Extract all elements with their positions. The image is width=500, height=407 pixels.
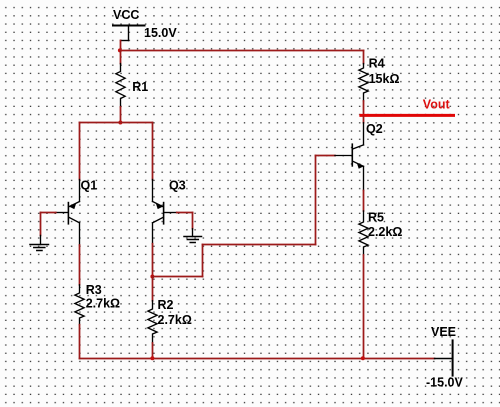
wire Q3 base — [177, 213, 193, 229]
wire R5 to bottom rail — [363, 255, 365, 359]
svg-text:VCC: VCC — [113, 8, 139, 22]
power VEE — [435, 340, 453, 375]
svg-text:2.7kΩ: 2.7kΩ — [86, 296, 120, 310]
power VCC — [113, 26, 145, 41]
svg-text:2.7kΩ: 2.7kΩ — [158, 313, 192, 327]
svg-text:R5: R5 — [368, 211, 384, 225]
svg-text:Vout: Vout — [423, 98, 451, 112]
resistor R2 — [148, 301, 157, 343]
wire R2 to bottom rail — [152, 343, 154, 359]
node A junction — [118, 121, 122, 125]
transistor Q3 — [153, 180, 177, 244]
resistor R3 — [75, 285, 84, 325]
svg-text:Q3: Q3 — [169, 179, 186, 193]
svg-text:VEE: VEE — [431, 325, 456, 339]
wire node A horizontal — [80, 122, 153, 124]
wire Q2 emitter to R5 — [363, 191, 365, 211]
svg-text:Q1: Q1 — [81, 179, 98, 193]
wire Q1 base — [41, 213, 56, 236]
svg-text:15.0V: 15.0V — [144, 26, 177, 40]
ground G1 — [30, 235, 49, 250]
wire node A to Q1 emitter — [79, 123, 81, 180]
wire top rail — [121, 50, 364, 52]
wire VCC to top rail — [120, 41, 122, 51]
net Vout wire (thick) — [361, 114, 454, 117]
wire top rail to R1 — [120, 51, 122, 64]
wire R1 to node A — [120, 107, 122, 123]
node B junction — [150, 275, 154, 279]
wire node A to Q3 emitter — [152, 123, 154, 180]
resistor R4 — [359, 64, 368, 102]
node top junction — [118, 48, 122, 52]
resistor R1 — [116, 64, 125, 108]
wire top rail to R4 — [363, 51, 365, 64]
svg-text:R3: R3 — [86, 283, 102, 297]
transistor Q1 — [56, 180, 80, 246]
svg-text:R1: R1 — [132, 80, 148, 94]
wire Q1 collector to R3 — [79, 245, 81, 285]
wire R3 to bottom rail — [79, 325, 81, 359]
svg-text:2.2kΩ: 2.2kΩ — [368, 225, 402, 239]
svg-text:15kΩ: 15kΩ — [369, 72, 400, 86]
wire R4 to Vout node — [363, 101, 365, 114]
transistor Q2 — [335, 123, 364, 191]
svg-text:R4: R4 — [369, 57, 385, 71]
wire Q3 collector to node B — [152, 244, 154, 277]
svg-text:-15.0V: -15.0V — [426, 376, 463, 390]
svg-text:Q2: Q2 — [366, 122, 383, 136]
node rail-R5 junction — [361, 356, 365, 360]
wire node B to Q2 base — [153, 156, 335, 277]
svg-text:R2: R2 — [158, 298, 174, 312]
ground G2 — [184, 229, 202, 243]
wire node B to R2 — [152, 277, 154, 301]
resistor R5 — [359, 211, 368, 255]
wire Vout node to Q2 collector — [363, 117, 365, 123]
wire bottom rail — [80, 358, 435, 360]
node rail-R2 junction — [150, 356, 154, 360]
